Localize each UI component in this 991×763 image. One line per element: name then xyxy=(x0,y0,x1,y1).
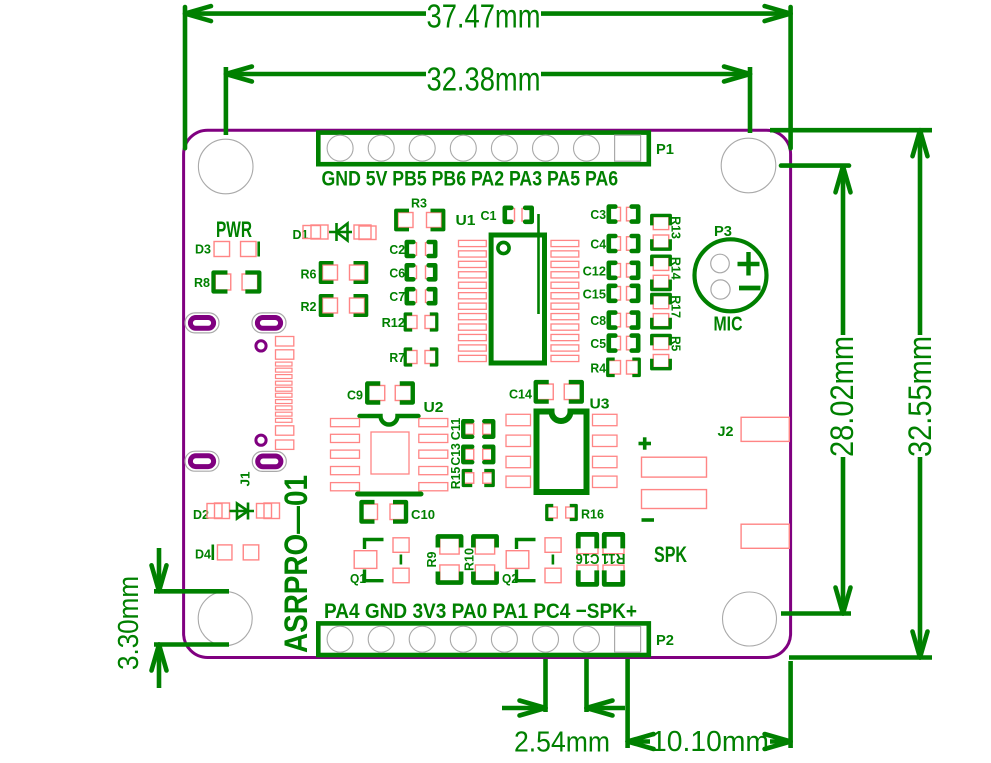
microphone P3 xyxy=(695,239,767,311)
connector P2 xyxy=(318,623,649,655)
mounting hole top-right xyxy=(721,138,776,193)
svg-text:U3: U3 xyxy=(590,396,610,413)
svg-text:C13: C13 xyxy=(449,443,463,466)
svg-text:J2: J2 xyxy=(718,423,734,439)
svg-text:R7: R7 xyxy=(389,350,405,365)
svg-text:R8: R8 xyxy=(194,275,210,290)
svg-text:R11: R11 xyxy=(602,550,626,567)
svg-text:D1: D1 xyxy=(293,227,309,242)
svg-text:R3: R3 xyxy=(411,196,427,211)
SPK minus mark xyxy=(642,518,655,522)
resistor R13 xyxy=(653,217,669,230)
svg-text:R14: R14 xyxy=(669,257,684,281)
svg-text:C1: C1 xyxy=(481,208,497,223)
svg-text:R13: R13 xyxy=(669,216,684,239)
resistor R9 xyxy=(440,538,459,554)
SPK pad 1 xyxy=(642,457,707,477)
svg-text:C5: C5 xyxy=(590,336,606,351)
svg-text:U1: U1 xyxy=(456,212,476,229)
svg-text:C9: C9 xyxy=(347,388,363,403)
svg-text:U2: U2 xyxy=(424,399,444,416)
svg-text:R17: R17 xyxy=(669,295,684,318)
svg-text:C11: C11 xyxy=(449,418,463,441)
svg-text:SPK: SPK xyxy=(654,542,687,567)
mounting hole bottom-right xyxy=(723,592,777,646)
svg-text:32.55mm: 32.55mm xyxy=(902,336,938,457)
svg-text:MIC: MIC xyxy=(714,314,743,336)
svg-text:R2: R2 xyxy=(301,299,317,314)
SPK plus mark xyxy=(639,442,652,446)
svg-text:32.38mm: 32.38mm xyxy=(427,61,541,98)
svg-text:R4: R4 xyxy=(590,360,606,375)
svg-text:R16: R16 xyxy=(581,507,604,522)
svg-text:GND 5V PB5 PB6 PA2 PA3 PA5 PA: GND 5V PB5 PB6 PA2 PA3 PA5 PA6 xyxy=(322,167,619,191)
resistor R17 xyxy=(653,296,669,309)
svg-text:R12: R12 xyxy=(382,315,405,330)
connector J2 pad xyxy=(741,417,789,441)
svg-text:J1: J1 xyxy=(238,472,253,487)
connector P1 xyxy=(318,133,649,165)
dimension 32.55mm xyxy=(770,128,932,133)
resistor R14 xyxy=(653,257,669,270)
resistor R15 xyxy=(464,473,474,484)
svg-text:C6: C6 xyxy=(389,265,405,280)
svg-text:R9: R9 xyxy=(424,552,439,568)
dimension 10.10mm xyxy=(625,659,630,748)
J1 pads xyxy=(276,337,294,347)
svg-text:2.54mm: 2.54mm xyxy=(514,727,610,759)
svg-text:C14: C14 xyxy=(509,387,533,402)
svg-text:ASRPRO—01: ASRPRO—01 xyxy=(278,475,314,653)
resistor R11 xyxy=(603,536,624,554)
svg-text:C7: C7 xyxy=(389,289,405,304)
mounting hole bottom-left xyxy=(198,592,252,646)
svg-text:PWR: PWR xyxy=(216,217,252,242)
svg-text:R5: R5 xyxy=(669,336,684,351)
capacitor C11 xyxy=(464,424,474,435)
resistor R5 xyxy=(653,337,669,350)
svg-text:10.10mm: 10.10mm xyxy=(651,726,769,758)
svg-text:R15: R15 xyxy=(449,467,463,490)
SPK pad 2 xyxy=(642,490,707,509)
svg-text:R10: R10 xyxy=(462,548,477,571)
svg-text:C8: C8 xyxy=(590,313,606,328)
svg-text:D3: D3 xyxy=(195,242,211,257)
svg-text:R6: R6 xyxy=(301,267,317,282)
svg-text:PA4 GND 3V3 PA0 PA1 PC4 −SPK+: PA4 GND 3V3 PA0 PA1 PC4 −SPK+ xyxy=(324,599,637,623)
dimension 2.54mm xyxy=(543,659,548,712)
svg-text:3.30mm: 3.30mm xyxy=(113,576,145,670)
capacitor C16 xyxy=(577,536,598,554)
solder pad bottom-right xyxy=(741,524,789,548)
mounting hole top-left xyxy=(198,139,253,194)
dimension 32.38mm xyxy=(224,67,229,135)
board outline xyxy=(184,130,791,657)
capacitor C13 xyxy=(464,449,474,460)
svg-text:P2: P2 xyxy=(656,632,674,649)
dimension 37.47mm xyxy=(183,7,188,148)
svg-text:C4: C4 xyxy=(590,237,606,252)
svg-text:37.47mm: 37.47mm xyxy=(427,0,541,35)
dimension 3.30mm xyxy=(154,589,229,594)
J1 locating holes xyxy=(256,341,266,351)
svg-text:28.02mm: 28.02mm xyxy=(824,336,860,457)
connector J1 mount slots xyxy=(185,313,219,333)
svg-text:P1: P1 xyxy=(656,141,674,158)
svg-text:C15: C15 xyxy=(583,286,606,301)
svg-text:C10: C10 xyxy=(411,507,435,522)
svg-text:D4: D4 xyxy=(195,547,212,562)
resistor R10 xyxy=(475,538,494,554)
svg-text:C2: C2 xyxy=(389,242,405,257)
dimension 28.02mm xyxy=(781,163,849,168)
svg-text:C16: C16 xyxy=(576,550,600,567)
svg-text:C12: C12 xyxy=(583,263,606,278)
svg-text:C3: C3 xyxy=(590,207,606,222)
